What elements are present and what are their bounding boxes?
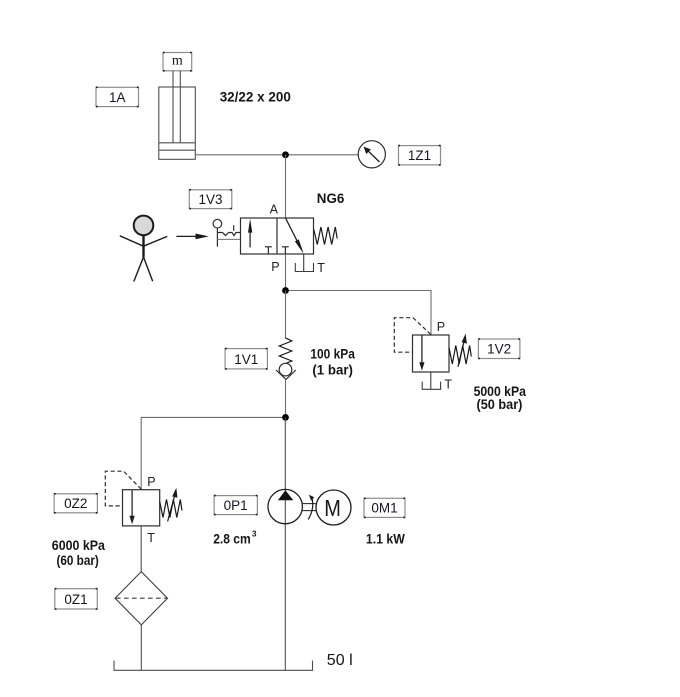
relief valve 1V2 spring	[449, 346, 471, 365]
label box 1V1	[225, 349, 267, 369]
svg-text:m: m	[172, 54, 183, 69]
wire filter to tank	[140, 625, 142, 670]
wire check valve to node 3	[285, 379, 287, 417]
label box 1Z1	[399, 146, 441, 165]
wire valve P to node 2	[285, 254, 287, 291]
relief valve 1V2 flow arrow	[419, 336, 424, 371]
svg-text:(1 bar): (1 bar)	[312, 362, 353, 378]
filter 0Z1	[115, 572, 167, 625]
tank reservoir	[114, 661, 313, 671]
svg-text:1V1: 1V1	[234, 352, 258, 367]
label box 1V2	[478, 339, 520, 359]
svg-text:M: M	[324, 494, 341, 521]
wire node to gauge	[286, 154, 359, 156]
operator stick figure	[120, 216, 167, 282]
svg-text:T: T	[147, 531, 155, 545]
node junction 2	[282, 287, 289, 294]
drive shaft	[302, 504, 316, 511]
relief valve 0Z2 body	[123, 490, 160, 526]
label box 0M1	[364, 498, 405, 517]
svg-text:0Z1: 0Z1	[64, 592, 87, 607]
wire node 3 to pump and tank	[284, 417, 286, 670]
svg-text:50 l: 50 l	[327, 652, 353, 669]
svg-text:6000 kPa: 6000 kPa	[52, 537, 105, 553]
motor 0M1	[316, 490, 351, 525]
svg-text:(60 bar): (60 bar)	[57, 552, 99, 568]
wire node 2 to check valve 1V1	[285, 291, 287, 339]
check valve 1V1 ball and seat	[276, 363, 296, 379]
pressure gauge 1Z1	[358, 141, 385, 168]
pump 0P1	[268, 489, 302, 523]
svg-text:P: P	[271, 260, 279, 274]
svg-text:1A: 1A	[109, 90, 126, 105]
relief valve 0Z2 adjustment arrow	[168, 488, 178, 522]
valve 1V3 manual actuator with detent	[213, 219, 241, 246]
rotation arrow	[308, 495, 314, 520]
node junction 3	[282, 414, 289, 421]
valve 1V3 left position P to A arrow	[248, 219, 252, 248]
valve 1V3 left position blocked T	[265, 247, 272, 254]
svg-text:1.1 kW: 1.1 kW	[366, 531, 406, 547]
wire node 3 to relief valve 0Z2	[141, 417, 285, 489]
valve 1V3 right position A to T arrow	[286, 218, 304, 254]
svg-text:(50 bar): (50 bar)	[477, 396, 523, 412]
svg-text:1V2: 1V2	[487, 342, 511, 357]
svg-text:1Z1: 1Z1	[408, 148, 431, 163]
wire cylinder to node	[195, 154, 285, 156]
svg-text:T: T	[444, 378, 452, 392]
svg-text:2.8 cm: 2.8 cm	[213, 530, 251, 546]
wire node 2 to relief valve 1V2	[286, 291, 432, 336]
relief valve 1V2 tank bracket	[422, 372, 440, 389]
load mass m box	[163, 53, 192, 71]
cylinder 1A	[159, 71, 196, 160]
svg-text:T: T	[317, 261, 325, 275]
svg-text:3: 3	[252, 529, 257, 538]
relief valve 0Z2 pilot dashed line	[105, 471, 141, 506]
relief valve 1V2 adjustment arrow	[458, 334, 467, 367]
label box 0P1	[214, 496, 257, 515]
valve 1V3 body	[241, 218, 314, 254]
svg-text:P: P	[437, 320, 445, 334]
valve 1V3 tank bracket T	[295, 254, 313, 272]
valve 1V3 return spring	[314, 227, 337, 245]
relief valve 1V2 body	[413, 335, 450, 372]
svg-text:NG6: NG6	[317, 190, 345, 206]
svg-text:0Z2: 0Z2	[64, 496, 87, 511]
relief valve 0Z2 spring	[160, 500, 182, 518]
label box 0Z1	[55, 589, 98, 609]
svg-text:A: A	[270, 203, 279, 217]
label box 1A	[96, 87, 139, 106]
check valve 1V1 spring	[279, 338, 292, 364]
svg-text:32/22 x 200: 32/22 x 200	[220, 89, 291, 105]
wire node to valve port A	[285, 155, 287, 218]
svg-text:0P1: 0P1	[224, 498, 248, 513]
node junction top	[282, 151, 289, 158]
label box 1V3	[189, 190, 232, 209]
actuation arrow	[176, 234, 208, 240]
relief valve 1V2 pilot dashed line	[394, 318, 431, 353]
wire 0Z2 T to filter	[140, 526, 142, 572]
svg-text:0M1: 0M1	[371, 500, 397, 515]
svg-text:1V3: 1V3	[198, 192, 222, 207]
label box 0Z2	[54, 494, 97, 513]
valve 1V3 right position blocked P	[282, 247, 289, 254]
svg-text:P: P	[147, 475, 155, 489]
svg-text:100 kPa: 100 kPa	[310, 346, 355, 362]
relief valve 0Z2 flow arrow	[130, 490, 135, 524]
